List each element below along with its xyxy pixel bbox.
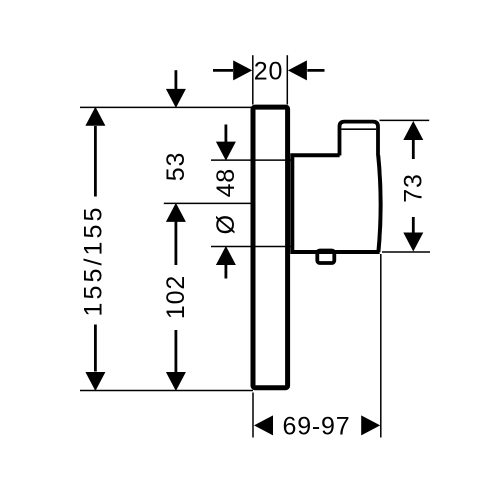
svg-text:53: 53	[162, 152, 190, 181]
svg-text:Ø 48: Ø 48	[212, 168, 240, 234]
svg-text:155/155: 155/155	[80, 204, 108, 316]
svg-text:73: 73	[400, 173, 428, 202]
svg-text:20: 20	[254, 58, 283, 86]
svg-text:102: 102	[162, 275, 190, 319]
svg-text:69-97: 69-97	[283, 413, 351, 441]
